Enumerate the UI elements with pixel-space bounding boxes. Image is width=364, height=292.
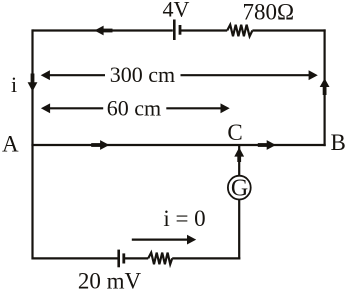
dimension arrow 300 cm: right line bbox=[181, 74, 311, 76]
svg-text:G: G bbox=[231, 176, 248, 202]
wire: galvanometer branch lower (G down to bottom wire) bbox=[238, 199, 240, 259]
battery cell 20mV: short plate bbox=[122, 253, 125, 263]
svg-text:C: C bbox=[227, 120, 242, 145]
dimension arrow 300 cm: right head bbox=[309, 70, 318, 80]
dimension arrow 60 cm: right head bbox=[221, 103, 230, 113]
svg-text:i: i bbox=[11, 72, 17, 97]
arrow: on wire C-B (pointing right) bbox=[258, 140, 276, 150]
arrow: current direction on top wire (pointing left) bbox=[94, 26, 112, 36]
dimension arrow 300 cm: left head bbox=[41, 70, 50, 80]
wire: right vertical side bbox=[324, 29, 326, 146]
wire: left vertical side bbox=[31, 29, 33, 259]
svg-text:300 cm: 300 cm bbox=[110, 62, 175, 87]
resistor r (series, bottom) zigzag bbox=[148, 253, 172, 265]
wire: bottom side middle segment (battery to resistor) bbox=[125, 257, 148, 259]
svg-text:B: B bbox=[331, 130, 346, 155]
arrow: i = 0 direction (pointing right) bbox=[132, 235, 196, 245]
svg-text:20 mV: 20 mV bbox=[78, 269, 142, 292]
svg-text:780Ω: 780Ω bbox=[243, 0, 295, 25]
dimension arrow 300 cm: left line bbox=[49, 74, 106, 76]
wire: top side middle segment (battery to resistor) bbox=[181, 29, 227, 31]
battery cell 4V: short plate bbox=[179, 25, 182, 35]
battery cell 4V: long plate bbox=[173, 20, 176, 41]
wire: bottom side right segment bbox=[172, 257, 240, 259]
wire: top side left segment bbox=[33, 29, 173, 31]
arrow: galvanometer branch up toward C bbox=[234, 147, 244, 162]
arrow: on wire A-C (pointing right) bbox=[91, 140, 109, 150]
wire: bottom side left segment bbox=[33, 257, 118, 259]
arrow: current i down left side bbox=[28, 74, 38, 92]
svg-text:i = 0: i = 0 bbox=[163, 206, 205, 231]
wire: top side right segment bbox=[252, 29, 325, 31]
arrow: current up right side bbox=[320, 78, 330, 95]
dimension arrow 60 cm: left line bbox=[49, 107, 103, 109]
svg-text:60 cm: 60 cm bbox=[107, 96, 161, 121]
dimension arrow 60 cm: left head bbox=[41, 103, 50, 113]
svg-text:A: A bbox=[2, 132, 19, 157]
dimension arrow 60 cm: right line bbox=[166, 107, 222, 109]
svg-text:4V: 4V bbox=[163, 0, 190, 22]
wire: A to B horizontal (potentiometer wire) bbox=[31, 144, 325, 146]
battery cell 20mV: long plate bbox=[117, 250, 120, 268]
galvanometer G circle bbox=[228, 176, 251, 200]
resistor R (780 ohm) zigzag bbox=[227, 25, 252, 37]
wire: galvanometer branch upper (C down to G) bbox=[238, 145, 240, 176]
